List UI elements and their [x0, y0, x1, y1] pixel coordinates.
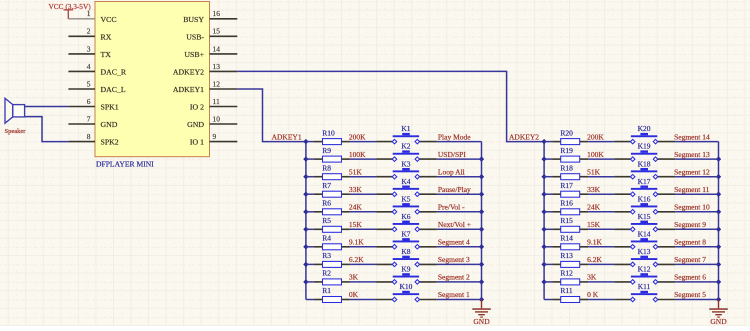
svg-text:USD/SPI: USD/SPI [438, 150, 466, 159]
svg-text:K6: K6 [401, 212, 410, 221]
svg-text:Segment 2: Segment 2 [438, 273, 470, 282]
svg-text:R6: R6 [322, 199, 331, 208]
svg-text:10: 10 [213, 114, 221, 123]
svg-text:33K: 33K [587, 185, 601, 194]
svg-text:8: 8 [87, 132, 91, 141]
svg-text:Segment 11: Segment 11 [674, 185, 710, 194]
svg-text:GND: GND [101, 120, 118, 129]
svg-text:Segment 12: Segment 12 [674, 167, 710, 176]
svg-text:R9: R9 [322, 146, 331, 155]
svg-text:K14: K14 [638, 229, 651, 238]
svg-text:Segment 7: Segment 7 [674, 255, 706, 264]
svg-text:R10: R10 [322, 128, 335, 137]
svg-text:K1: K1 [401, 124, 410, 133]
svg-text:16: 16 [213, 9, 221, 18]
svg-text:R5: R5 [322, 216, 331, 225]
svg-text:GND: GND [187, 120, 204, 129]
svg-text:RX: RX [101, 32, 112, 41]
svg-text:200K: 200K [587, 132, 604, 141]
svg-text:USB-: USB- [186, 32, 204, 41]
svg-text:Next/Vol +: Next/Vol + [438, 220, 471, 229]
svg-text:13: 13 [213, 62, 221, 71]
svg-text:14: 14 [213, 44, 221, 53]
svg-text:K16: K16 [638, 194, 651, 203]
svg-text:11: 11 [213, 97, 220, 106]
svg-text:R13: R13 [560, 251, 573, 260]
svg-text:200K: 200K [349, 132, 366, 141]
svg-text:R16: R16 [560, 199, 573, 208]
svg-text:SPK2: SPK2 [101, 138, 119, 147]
svg-text:R11: R11 [560, 286, 572, 295]
svg-text:Segment 8: Segment 8 [674, 238, 706, 247]
svg-text:24K: 24K [349, 203, 363, 212]
svg-text:Segment 9: Segment 9 [674, 220, 706, 229]
svg-text:Play Mode: Play Mode [438, 132, 471, 141]
svg-text:5: 5 [87, 79, 91, 88]
svg-text:R8: R8 [322, 163, 331, 172]
svg-text:3K: 3K [349, 273, 359, 282]
svg-text:Segment 1: Segment 1 [438, 290, 470, 299]
svg-text:VCC: VCC [101, 15, 117, 24]
svg-text:DAC_L: DAC_L [101, 85, 126, 94]
svg-text:Segment 6: Segment 6 [674, 273, 706, 282]
svg-text:K4: K4 [401, 177, 410, 186]
svg-text:3: 3 [87, 44, 91, 53]
svg-text:K7: K7 [401, 229, 410, 238]
svg-text:K10: K10 [399, 282, 412, 291]
svg-text:K15: K15 [638, 212, 651, 221]
svg-text:3K: 3K [587, 273, 597, 282]
svg-text:USB+: USB+ [184, 50, 204, 59]
svg-text:R15: R15 [560, 216, 573, 225]
svg-text:SPK1: SPK1 [101, 103, 119, 112]
svg-text:Segment 10: Segment 10 [674, 203, 710, 212]
svg-text:9.1K: 9.1K [587, 238, 602, 247]
svg-text:R4: R4 [322, 234, 331, 243]
svg-text:ADKEY2: ADKEY2 [509, 132, 539, 141]
svg-text:ADKEY1: ADKEY1 [173, 85, 204, 94]
svg-text:R3: R3 [322, 251, 331, 260]
svg-text:R18: R18 [560, 163, 573, 172]
svg-text:6.2K: 6.2K [587, 255, 602, 264]
svg-text:9: 9 [213, 132, 217, 141]
svg-text:15K: 15K [349, 220, 363, 229]
svg-text:ADKEY1: ADKEY1 [272, 132, 302, 141]
svg-text:6.2K: 6.2K [349, 255, 364, 264]
svg-text:100K: 100K [349, 150, 366, 159]
svg-text:GND: GND [710, 317, 727, 326]
svg-text:0K: 0K [349, 290, 359, 299]
svg-text:15: 15 [213, 27, 221, 36]
svg-text:DAC_R: DAC_R [101, 67, 127, 76]
svg-text:9.1K: 9.1K [349, 238, 364, 247]
svg-text:Loop All: Loop All [438, 167, 465, 176]
svg-text:VCC (3.3-5V): VCC (3.3-5V) [49, 2, 92, 11]
svg-text:K2: K2 [401, 142, 410, 151]
svg-text:51K: 51K [587, 167, 601, 176]
svg-text:33K: 33K [349, 185, 363, 194]
svg-text:Segment 14: Segment 14 [674, 132, 710, 141]
svg-text:K3: K3 [401, 159, 410, 168]
svg-text:Speaker: Speaker [5, 128, 27, 135]
svg-text:R1: R1 [322, 286, 331, 295]
svg-text:TX: TX [101, 50, 112, 59]
svg-text:ADKEY2: ADKEY2 [173, 67, 204, 76]
svg-text:Pause/Play: Pause/Play [438, 185, 471, 194]
svg-text:K19: K19 [638, 142, 651, 151]
svg-text:K9: K9 [401, 265, 410, 274]
svg-text:Segment 4: Segment 4 [438, 238, 470, 247]
svg-text:DFPLAYER MINI: DFPLAYER MINI [96, 160, 154, 169]
svg-text:7: 7 [87, 114, 91, 123]
svg-text:0 K: 0 K [587, 290, 599, 299]
svg-text:R7: R7 [322, 181, 331, 190]
svg-text:K8: K8 [401, 247, 410, 256]
svg-text:R20: R20 [560, 128, 573, 137]
svg-text:K18: K18 [638, 159, 651, 168]
svg-text:K13: K13 [638, 247, 651, 256]
svg-text:R12: R12 [560, 269, 573, 278]
svg-text:15K: 15K [587, 220, 601, 229]
svg-text:2: 2 [87, 27, 91, 36]
svg-text:IO 2: IO 2 [190, 103, 204, 112]
svg-text:12: 12 [213, 79, 221, 88]
svg-text:GND: GND [473, 317, 490, 326]
svg-text:K5: K5 [401, 194, 410, 203]
svg-text:4: 4 [87, 62, 91, 71]
svg-text:K11: K11 [638, 282, 651, 291]
svg-text:51K: 51K [349, 167, 363, 176]
svg-text:BUSY: BUSY [183, 15, 204, 24]
svg-text:K12: K12 [638, 265, 651, 274]
svg-text:Pre/Vol -: Pre/Vol - [438, 203, 465, 212]
svg-text:K20: K20 [638, 124, 651, 133]
svg-text:6: 6 [87, 97, 91, 106]
svg-text:IO 1: IO 1 [190, 138, 204, 147]
svg-text:Segment 5: Segment 5 [674, 290, 706, 299]
svg-text:R17: R17 [560, 181, 573, 190]
svg-text:Segment 13: Segment 13 [674, 150, 710, 159]
svg-text:R2: R2 [322, 269, 331, 278]
svg-text:Segment 3: Segment 3 [438, 255, 470, 264]
svg-text:R19: R19 [560, 146, 573, 155]
svg-text:100K: 100K [587, 150, 604, 159]
svg-text:K17: K17 [638, 177, 651, 186]
svg-text:24K: 24K [587, 203, 601, 212]
svg-text:R14: R14 [560, 234, 573, 243]
